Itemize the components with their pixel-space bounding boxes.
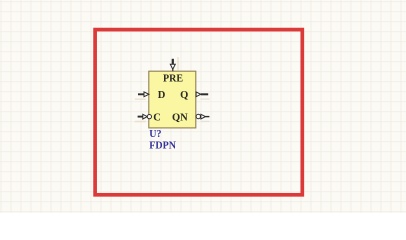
svg-text:U?: U? [149, 129, 161, 140]
pin C (left bottom, clock with bubble) [138, 114, 152, 119]
svg-text:Q: Q [180, 90, 188, 101]
red selection rectangle [95, 30, 302, 195]
pin D (left top) [138, 92, 149, 97]
pin QN number ghost [201, 121, 210, 122]
pin Q number ghost [201, 98, 210, 99]
pin Q (right top) [196, 92, 208, 97]
component U1 body [149, 71, 196, 128]
pin PRE (top) [170, 59, 175, 71]
pin D number ghost [135, 98, 146, 100]
svg-text:FDPN: FDPN [149, 141, 176, 152]
svg-text:D: D [158, 90, 166, 101]
svg-text:PRE: PRE [163, 73, 183, 84]
pin C number ghost [135, 121, 146, 123]
svg-text:C: C [153, 112, 161, 123]
pin PRE number ghost [177, 57, 178, 71]
pin QN (right bottom, inverted output) [196, 114, 209, 119]
svg-text:QN: QN [172, 112, 188, 123]
